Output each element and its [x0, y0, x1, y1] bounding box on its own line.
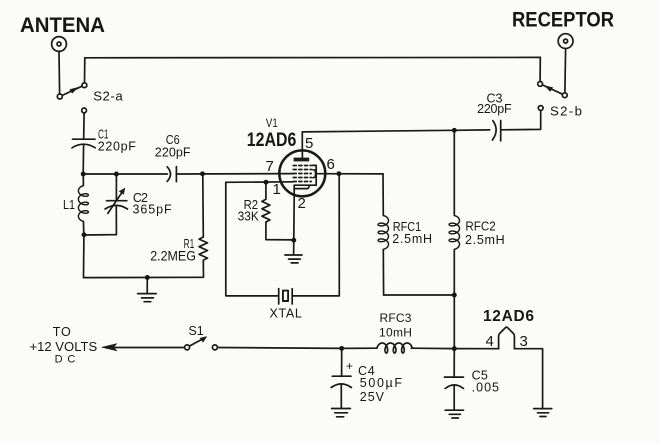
- node junction plate/C3: [452, 128, 457, 133]
- choke RFC3: [342, 343, 455, 353]
- tube V1 screen tie and cathode lead: [294, 165, 316, 196]
- svg-text:2.2MEG: 2.2MEG: [150, 247, 196, 263]
- capacitor C6: [167, 167, 176, 182]
- svg-text:25V: 25V: [360, 390, 385, 404]
- node junction L1 bottom: [82, 232, 87, 237]
- wire pin 6 line: [316, 173, 383, 175]
- switch S1: [185, 337, 218, 350]
- svg-text:2: 2: [298, 195, 306, 212]
- wire receptor jack to S2-b arm: [564, 49, 567, 93]
- svg-text:D C: D C: [55, 353, 76, 365]
- capacitor C3: [492, 121, 500, 141]
- node junction R1 top: [200, 171, 205, 176]
- svg-text:S1: S1: [189, 323, 204, 338]
- svg-text:S2-a: S2-a: [93, 88, 123, 103]
- node junction cathode/R2: [291, 238, 296, 243]
- wire C5 node to heater: [457, 348, 499, 350]
- tube V1 plate: [294, 150, 310, 161]
- ground G5: [534, 409, 552, 417]
- wire cathode to ground junction: [293, 196, 295, 240]
- node junction C4: [339, 346, 344, 351]
- svg-text:12AD6: 12AD6: [483, 308, 534, 325]
- svg-text:5: 5: [305, 135, 313, 152]
- svg-text:4: 4: [486, 333, 494, 350]
- svg-text:500µF: 500µF: [360, 376, 403, 390]
- wire XTAL right up to pin6 node: [292, 174, 339, 296]
- wire +12V to S1: [115, 347, 185, 349]
- wire C6 to tube pin 7: [176, 173, 293, 175]
- svg-text:ANTENA: ANTENA: [20, 14, 105, 37]
- choke RFC1: [378, 174, 388, 295]
- ground G2: [285, 240, 302, 263]
- wire S2-a lower throw to C1: [83, 113, 85, 138]
- wire RFC1 bottom to vertical rail: [384, 294, 455, 296]
- ground G3: [332, 409, 351, 417]
- node junction R2 top: [264, 180, 269, 185]
- node junction C1/L1: [81, 172, 86, 177]
- resistor R2: [262, 184, 294, 240]
- tube V1 envelope: [279, 150, 325, 196]
- inductor L1: [78, 175, 88, 233]
- switch S2-a: [57, 83, 87, 113]
- svg-text:2.5mH: 2.5mH: [465, 233, 505, 247]
- svg-text:RFC2: RFC2: [465, 220, 495, 234]
- svg-text:+: +: [346, 359, 353, 373]
- wire tank to ground rail: [84, 235, 204, 278]
- svg-text:220pF: 220pF: [155, 146, 191, 160]
- wire tank bottom: [84, 233, 117, 235]
- ground G1: [138, 278, 156, 302]
- ground G4: [445, 410, 463, 418]
- svg-text:TO: TO: [53, 325, 71, 339]
- svg-text:33K: 33K: [238, 209, 260, 223]
- wire heater pin3 to ground: [514, 349, 542, 408]
- wire S2-a fixed contact up to top rail: [84, 58, 86, 83]
- resistor R1: [199, 176, 207, 277]
- capacitor C1: [72, 139, 95, 172]
- arrow +12V feed: [102, 344, 117, 351]
- svg-text:365pF: 365pF: [133, 202, 173, 216]
- antenna jack: [52, 37, 67, 52]
- tube heater pins 4-3: [499, 327, 515, 349]
- wire tank top rail: [83, 173, 167, 175]
- capacitor C2 (variable): [105, 175, 127, 234]
- choke RFC2: [449, 130, 459, 348]
- svg-text:RECEPTOR: RECEPTOR: [512, 8, 614, 31]
- svg-text:220pF: 220pF: [477, 102, 512, 116]
- svg-text:RFC3: RFC3: [380, 311, 412, 325]
- svg-text:12AD6: 12AD6: [247, 130, 296, 151]
- wire pin 1 line: [226, 181, 294, 184]
- svg-text:.005: .005: [472, 381, 499, 395]
- svg-text:3: 3: [520, 333, 528, 350]
- wire top rail: [85, 56, 541, 58]
- crystal XTAL: [279, 289, 293, 304]
- svg-text:10mH: 10mH: [379, 325, 412, 339]
- svg-text:2.5mH: 2.5mH: [392, 232, 432, 246]
- node junction pin6: [336, 171, 341, 176]
- svg-text:6: 6: [327, 156, 335, 173]
- wire pin1 down to XTAL: [226, 182, 279, 296]
- node junction C5: [452, 346, 457, 351]
- tube V1 grid brace: [313, 170, 317, 178]
- node junction RFC bottom: [452, 293, 457, 298]
- svg-text:+12 VOLTS: +12 VOLTS: [30, 340, 98, 354]
- capacitor C4: [331, 348, 351, 408]
- node junction C2 top: [114, 172, 119, 177]
- wire C3 right to S2-b lower: [501, 110, 541, 129]
- svg-text:L1: L1: [63, 198, 75, 212]
- svg-text:1: 1: [273, 181, 281, 198]
- capacitor C5: [444, 349, 463, 410]
- receptor jack: [558, 34, 573, 49]
- wire top rail down to S2-b fixed: [539, 57, 541, 81]
- wire antenna jack to S2-a arm: [58, 52, 61, 94]
- tube V1 cathode bar: [295, 186, 310, 188]
- tube V1 grids (dashed): [293, 166, 311, 182]
- svg-text:7: 7: [266, 158, 274, 175]
- svg-text:220pF: 220pF: [98, 139, 137, 153]
- switch S2-b: [538, 82, 568, 111]
- wire plate line (pin 5): [302, 130, 489, 150]
- node junction ground stub: [145, 275, 150, 280]
- svg-text:S2-b: S2-b: [550, 103, 582, 118]
- svg-text:V1: V1: [266, 118, 278, 130]
- svg-text:XTAL: XTAL: [270, 307, 302, 321]
- wire S1 to C4 node: [217, 347, 341, 350]
